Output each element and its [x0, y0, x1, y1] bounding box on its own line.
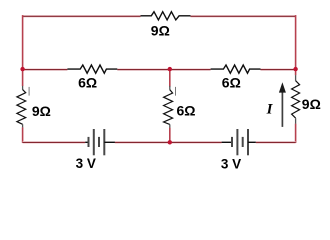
node junction center-middle: [168, 67, 172, 71]
battery V2 3V: [222, 129, 256, 155]
svg-text:9Ω: 9Ω: [151, 23, 170, 39]
resistor R4 9ohm left branch: [17, 86, 29, 128]
resistor R3 6ohm middle-right: [211, 65, 261, 73]
wire right side upper segment: [295, 15, 297, 75]
wire bottom center segment: [115, 141, 222, 144]
wire middle branch upper segment: [169, 69, 171, 87]
wire middle row right segment: [261, 68, 296, 71]
battery V1 3V: [85, 129, 115, 155]
current arrow I: [279, 82, 286, 127]
wire middle row center segment: [117, 68, 210, 71]
wire left side lower segment: [22, 127, 24, 143]
wire left side upper segment: [22, 15, 24, 86]
wire bottom left segment: [23, 141, 86, 144]
svg-text:6Ω: 6Ω: [78, 75, 97, 91]
wire right side lower segment: [295, 124, 297, 143]
resistor R2 6ohm middle-left: [67, 65, 117, 73]
wire middle row left segment: [23, 68, 68, 71]
wire bottom right segment: [256, 141, 296, 144]
svg-text:6Ω: 6Ω: [222, 75, 241, 91]
wire middle branch lower segment: [169, 128, 171, 143]
node junction right-middle: [293, 67, 297, 71]
node junction left-middle: [20, 67, 24, 71]
svg-text:3 V: 3 V: [76, 156, 96, 171]
resistor R1 9ohm top: [141, 12, 191, 20]
svg-text:3 V: 3 V: [221, 156, 241, 171]
resistor R6 9ohm right branch: [292, 75, 300, 124]
wire top side right segment: [191, 15, 296, 18]
svg-text:9Ω: 9Ω: [32, 103, 51, 119]
wire top side left segment: [23, 15, 141, 18]
resistor R5 6ohm middle branch: [164, 86, 176, 128]
node junction center-bottom: [168, 140, 172, 144]
svg-text:6Ω: 6Ω: [176, 103, 195, 119]
svg-text:I: I: [266, 102, 274, 118]
svg-text:9Ω: 9Ω: [302, 96, 321, 112]
